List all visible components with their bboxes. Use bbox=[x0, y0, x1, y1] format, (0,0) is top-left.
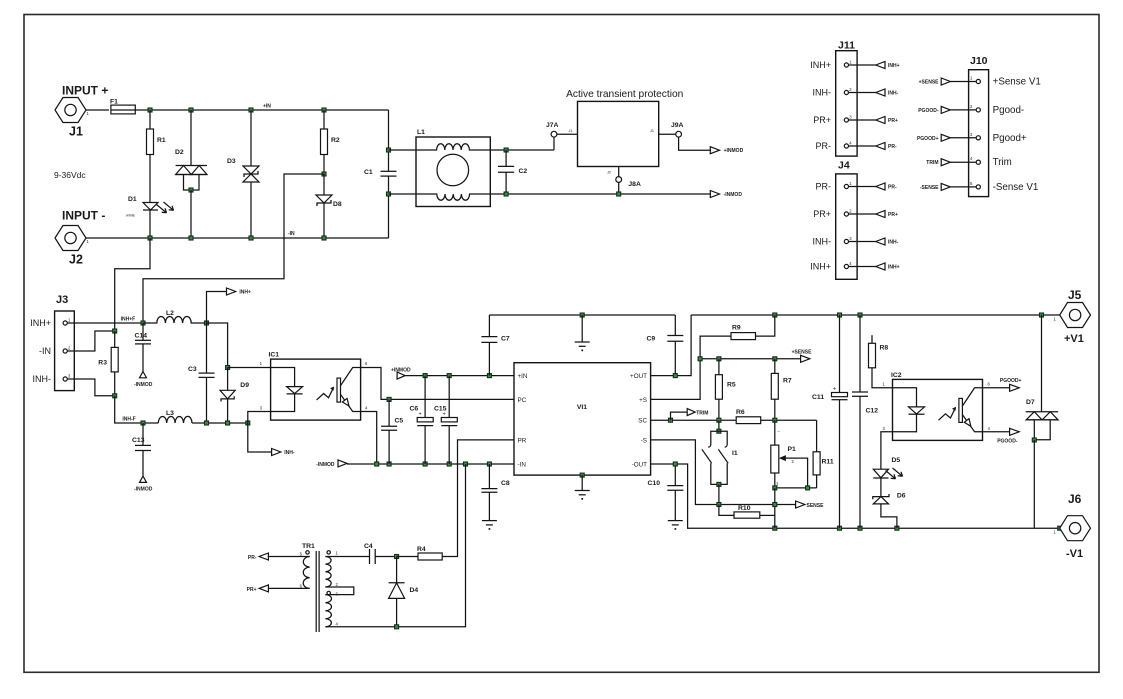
capacitor C2 bbox=[498, 148, 527, 196]
svg-text:Trim: Trim bbox=[993, 157, 1012, 168]
svg-text:R5: R5 bbox=[727, 382, 736, 389]
svg-text:Active transient protection: Active transient protection bbox=[566, 89, 683, 100]
svg-text:L3: L3 bbox=[166, 410, 174, 417]
svg-text:D9: D9 bbox=[240, 382, 249, 389]
svg-text:INH-: INH- bbox=[813, 88, 832, 98]
svg-text:INH-: INH- bbox=[888, 240, 899, 246]
svg-text:R9: R9 bbox=[732, 325, 741, 332]
svg-text:C9: C9 bbox=[647, 336, 656, 343]
svg-text:D2: D2 bbox=[175, 149, 184, 156]
wire IC1 pin4 to -IN rail bbox=[361, 412, 377, 465]
capacitor C14 bbox=[135, 323, 152, 372]
J4 pin 4 INH+ bbox=[810, 261, 899, 272]
capacitor C12 bbox=[852, 315, 878, 528]
svg-text:J10: J10 bbox=[970, 55, 988, 67]
svg-text:INH+: INH+ bbox=[888, 63, 900, 69]
svg-text:F1: F1 bbox=[110, 99, 118, 106]
svg-text:R3: R3 bbox=[98, 360, 107, 367]
svg-text:Pgood-: Pgood- bbox=[993, 105, 1025, 116]
svg-text:PR-: PR- bbox=[888, 185, 897, 191]
flag INH- out bbox=[248, 423, 295, 456]
svg-text:PR: PR bbox=[518, 437, 527, 444]
J11 pin 3 PR+ bbox=[813, 115, 898, 126]
wire INH- node to IC1 pin3 bbox=[248, 412, 271, 424]
svg-text:PR+: PR+ bbox=[813, 209, 831, 219]
ground (top rail) bbox=[575, 315, 590, 351]
svg-text:C14: C14 bbox=[135, 333, 148, 340]
svg-text:9-36Vdc: 9-36Vdc bbox=[54, 170, 86, 180]
svg-text:-INMOD: -INMOD bbox=[134, 487, 153, 493]
svg-text:+S: +S bbox=[639, 397, 647, 404]
connector J10 bbox=[969, 55, 989, 197]
svg-text:PR+: PR+ bbox=[888, 118, 898, 124]
svg-text:INH+: INH+ bbox=[810, 262, 831, 272]
svg-text:J6: J6 bbox=[1068, 492, 1082, 506]
svg-text:+: + bbox=[833, 387, 836, 393]
svg-text:C13: C13 bbox=[132, 437, 145, 444]
TVS D2 bbox=[175, 110, 207, 238]
svg-text:R8: R8 bbox=[880, 345, 889, 352]
svg-text:+IN: +IN bbox=[263, 104, 271, 110]
J11 pin 2 INH- bbox=[813, 87, 899, 98]
svg-text:TR1: TR1 bbox=[302, 543, 315, 550]
svg-text:PR-: PR- bbox=[816, 141, 832, 151]
wire P1 bottom node bbox=[773, 486, 817, 528]
svg-text:PC: PC bbox=[518, 397, 527, 404]
svg-text:L2: L2 bbox=[166, 310, 174, 317]
ground (C8) bbox=[482, 521, 497, 530]
flag TRIM out bbox=[671, 409, 709, 421]
fuse F1 bbox=[110, 99, 135, 114]
svg-text:-IN: -IN bbox=[518, 461, 527, 468]
flag PGOOD- out bbox=[983, 428, 1020, 444]
svg-text:J3: J3 bbox=[56, 294, 68, 306]
J10 pin 2 Pgood- bbox=[918, 104, 1024, 116]
zener D8 bbox=[316, 174, 342, 238]
J10 pin 4 Trim bbox=[926, 156, 1012, 168]
wire D8 node to INH+F node bbox=[143, 174, 324, 323]
J4 pin 3 INH- bbox=[813, 236, 899, 247]
svg-text:D4: D4 bbox=[410, 587, 419, 594]
svg-text:+: + bbox=[419, 412, 422, 418]
flag +INMOD out bbox=[710, 147, 743, 155]
svg-text:+IN: +IN bbox=[518, 373, 528, 380]
TVS D3 bbox=[227, 110, 259, 238]
svg-text:PGOOD+: PGOOD+ bbox=[917, 136, 939, 142]
svg-text:INH+F: INH+F bbox=[121, 317, 136, 323]
svg-text:PGOOD-: PGOOD- bbox=[918, 108, 939, 114]
resistor R4 bbox=[395, 546, 443, 560]
svg-text:INH-: INH- bbox=[284, 450, 295, 456]
transformer TR1 bbox=[300, 543, 370, 632]
svg-text:-SENSE: -SENSE bbox=[920, 185, 939, 191]
wire +OUT to rail B bbox=[651, 315, 692, 378]
svg-text:J2: J2 bbox=[69, 253, 83, 267]
svg-text:TRIM: TRIM bbox=[696, 410, 708, 416]
svg-text:PR-: PR- bbox=[888, 144, 897, 150]
optocoupler IC2 bbox=[883, 372, 991, 440]
svg-text:+INMOD: +INMOD bbox=[724, 148, 744, 154]
svg-text:-OUT: -OUT bbox=[632, 461, 648, 468]
svg-text:J1: J1 bbox=[69, 125, 83, 139]
diode D4 bbox=[389, 557, 419, 629]
connector J1 INPUT+ bbox=[55, 84, 108, 139]
resistor R7 bbox=[771, 359, 792, 420]
capacitor C7 bbox=[481, 315, 510, 376]
svg-text:D7: D7 bbox=[1026, 399, 1035, 406]
connector J5 +V1 bbox=[1054, 288, 1091, 345]
svg-text:C2: C2 bbox=[519, 168, 528, 175]
capacitor C9 bbox=[647, 315, 684, 376]
svg-text:PGOOD+: PGOOD+ bbox=[1000, 378, 1022, 384]
flag INH+ out bbox=[207, 288, 252, 323]
svg-text:PR-: PR- bbox=[816, 182, 832, 192]
J10 pin 3 Pgood+ bbox=[917, 132, 1027, 144]
J4 pin 2 PR+ bbox=[813, 209, 898, 220]
wire +SENSE line bbox=[698, 357, 801, 361]
flag +SENSE out bbox=[792, 350, 813, 363]
svg-text:C3: C3 bbox=[188, 366, 197, 373]
svg-text:L1: L1 bbox=[417, 129, 425, 136]
svg-text:C11: C11 bbox=[812, 394, 824, 401]
LED D1 bbox=[126, 196, 174, 238]
flag -INMOD (C13) bbox=[134, 476, 153, 492]
svg-text:D1: D1 bbox=[128, 196, 137, 203]
svg-text:PR+: PR+ bbox=[888, 212, 898, 218]
J10 pin 1 +Sense V1 bbox=[919, 76, 1041, 88]
svg-text:P1: P1 bbox=[788, 446, 797, 453]
TVS D7 bbox=[1026, 315, 1059, 528]
svg-text:-IN: -IN bbox=[39, 346, 51, 356]
flag PGOOD+ out bbox=[983, 378, 1022, 391]
svg-text:INH+: INH+ bbox=[810, 60, 831, 70]
capacitor C3 bbox=[188, 323, 215, 423]
inductor L3 bbox=[158, 410, 192, 423]
svg-text:J2: J2 bbox=[607, 171, 611, 175]
wire +IN rail bbox=[135, 104, 389, 113]
wire J2 rail to R3 node bbox=[115, 238, 150, 331]
resistor R9 bbox=[700, 315, 775, 359]
capacitor C8 bbox=[481, 464, 510, 521]
svg-text:INH+: INH+ bbox=[239, 290, 251, 296]
svg-text:PR+: PR+ bbox=[247, 587, 257, 593]
svg-text:INH-: INH- bbox=[33, 374, 52, 384]
svg-text:+INMOD: +INMOD bbox=[391, 368, 411, 374]
svg-text:PGOOD-: PGOOD- bbox=[997, 439, 1018, 445]
svg-text:-IN: -IN bbox=[288, 231, 295, 237]
svg-text:R1: R1 bbox=[157, 137, 166, 144]
flag -INMOD (C14) bbox=[134, 372, 153, 389]
resistor R8 bbox=[869, 335, 893, 388]
connector J11 bbox=[836, 40, 857, 157]
switch I1 bbox=[702, 420, 738, 504]
capacitor C15 polarized bbox=[434, 376, 457, 464]
zener D6 bbox=[873, 478, 906, 528]
svg-text:J1: J1 bbox=[650, 129, 654, 133]
resistor R10 bbox=[719, 505, 775, 519]
svg-text:INH+: INH+ bbox=[888, 265, 900, 271]
svg-text:R11: R11 bbox=[822, 459, 834, 466]
svg-text:C12: C12 bbox=[866, 408, 879, 415]
svg-text:INH-: INH- bbox=[813, 237, 832, 247]
ground (C10) bbox=[668, 521, 683, 530]
connector J3 bbox=[55, 294, 75, 391]
svg-text:D6: D6 bbox=[897, 493, 906, 500]
svg-text:INH-F: INH-F bbox=[122, 417, 135, 423]
wire J1 to F1 bbox=[86, 109, 109, 111]
wire -IN rail (bottom of VI1 input side) bbox=[375, 462, 514, 466]
connector J6 -V1 bbox=[1054, 492, 1091, 560]
svg-text:IC1: IC1 bbox=[269, 352, 280, 359]
svg-text:-V1: -V1 bbox=[1066, 548, 1083, 560]
resistor R5 bbox=[715, 359, 736, 420]
svg-text:R10: R10 bbox=[738, 505, 751, 512]
J10 pin 5 -Sense V1 bbox=[920, 181, 1038, 193]
svg-text:J8A: J8A bbox=[628, 181, 641, 188]
active transient protection block bbox=[566, 89, 683, 167]
wire -IN rail bbox=[86, 231, 389, 240]
svg-text:+OUT: +OUT bbox=[630, 373, 647, 380]
wire R3 bottom to INH-F node bbox=[115, 396, 143, 423]
svg-text:J4: J4 bbox=[838, 160, 850, 172]
svg-text:R4: R4 bbox=[417, 546, 426, 553]
wire SC/TRIM line bbox=[651, 418, 817, 422]
svg-text:+SENSE: +SENSE bbox=[919, 80, 940, 86]
flag +INMOD in bbox=[391, 368, 514, 380]
svg-text:J7A: J7A bbox=[546, 122, 559, 129]
capacitor C13 bbox=[132, 423, 151, 476]
svg-text:PR-: PR- bbox=[248, 555, 257, 561]
potentiometer P1 bbox=[771, 420, 808, 488]
resistor R11 bbox=[813, 420, 834, 488]
converter VI1 bbox=[514, 363, 651, 475]
connector J7A bbox=[546, 122, 578, 150]
resistor R2 bbox=[321, 110, 340, 176]
svg-text:C15: C15 bbox=[434, 406, 447, 413]
choke L1 bbox=[389, 129, 711, 207]
svg-text:Pgood+: Pgood+ bbox=[993, 133, 1027, 144]
svg-text:J9A: J9A bbox=[671, 122, 684, 129]
resistor R3 bbox=[98, 329, 118, 398]
svg-text:C4: C4 bbox=[364, 543, 373, 550]
wire +S to +SENSE node bbox=[651, 359, 701, 400]
connector J8A bbox=[607, 167, 641, 197]
svg-text:C5: C5 bbox=[395, 418, 404, 425]
svg-text:SC: SC bbox=[638, 418, 647, 425]
svg-text:J1: J1 bbox=[569, 129, 573, 133]
svg-text:C8: C8 bbox=[501, 480, 510, 487]
J11 pin 4 PR- bbox=[816, 141, 897, 152]
svg-text:+V1: +V1 bbox=[1064, 333, 1084, 345]
wire top rail C7-C9 bbox=[489, 313, 675, 317]
svg-text:I1: I1 bbox=[732, 450, 738, 457]
J3 pin 3 INH- bbox=[33, 374, 115, 396]
wire IC2 pin3 to D5 bbox=[881, 432, 893, 469]
inductor L2 bbox=[143, 310, 209, 325]
svg-text:INH+: INH+ bbox=[30, 318, 51, 328]
svg-text:-S: -S bbox=[641, 437, 647, 444]
svg-text:INPUT -: INPUT - bbox=[62, 209, 105, 223]
wire +V1 rail B bbox=[691, 313, 1060, 317]
J11 pin 1 INH+ bbox=[810, 60, 899, 71]
svg-text:C6: C6 bbox=[410, 406, 419, 413]
svg-text:IC2: IC2 bbox=[891, 372, 902, 379]
wire IC1 pin6 to VI1 PC bbox=[361, 368, 514, 402]
zener D9 bbox=[220, 366, 249, 424]
svg-text:R7: R7 bbox=[783, 378, 792, 385]
capacitor C1 bbox=[364, 110, 397, 238]
connector J9A bbox=[650, 122, 710, 150]
flag -SENSE out bbox=[796, 501, 825, 509]
capacitor C10 bbox=[648, 464, 684, 521]
svg-text:INPUT +: INPUT + bbox=[62, 84, 108, 98]
wire IC1 pin1 bbox=[228, 367, 271, 369]
wire L2 node to IC1 pin1 node bbox=[207, 323, 228, 368]
wire -OUT to bottom rail bbox=[651, 462, 1062, 530]
svg-text:VI1: VI1 bbox=[577, 404, 587, 411]
svg-text:J11: J11 bbox=[838, 40, 855, 52]
svg-text:C1: C1 bbox=[364, 169, 373, 176]
wire -S to -SENSE line bbox=[651, 440, 796, 507]
connector J4 bbox=[836, 160, 857, 280]
node INH-F and bottom filter line bbox=[122, 417, 249, 426]
svg-text:C10: C10 bbox=[648, 480, 661, 487]
capacitor C4 bbox=[364, 543, 397, 564]
svg-text:TRIM: TRIM bbox=[926, 160, 938, 166]
svg-text:-Sense V1: -Sense V1 bbox=[993, 182, 1039, 193]
svg-text:D8: D8 bbox=[333, 201, 342, 208]
svg-text:+SENSE: +SENSE bbox=[792, 350, 813, 356]
resistor R6 bbox=[736, 409, 761, 424]
flag -INMOD in bbox=[316, 460, 377, 468]
ground (VI1 bottom pin) bbox=[575, 473, 590, 500]
J4 pin 1 PR- bbox=[816, 181, 897, 192]
capacitor C11 polarized bbox=[812, 315, 848, 528]
J3 pin 2 -IN bbox=[39, 331, 115, 356]
svg-text:C7: C7 bbox=[501, 336, 510, 343]
svg-text:INH-: INH- bbox=[888, 91, 899, 97]
capacitor C6 polarized bbox=[410, 376, 434, 464]
svg-text:D5: D5 bbox=[892, 457, 901, 464]
optocoupler IC1 bbox=[260, 352, 368, 421]
svg-text:white: white bbox=[126, 214, 135, 218]
node INH+F bbox=[121, 317, 145, 326]
svg-text:-INMOD: -INMOD bbox=[316, 462, 335, 468]
svg-text:+Sense V1: +Sense V1 bbox=[993, 77, 1041, 88]
flag -INMOD out bbox=[710, 191, 742, 199]
svg-text:SENSE: SENSE bbox=[807, 503, 825, 509]
svg-text:R2: R2 bbox=[331, 137, 340, 144]
J3 pin 1 INH+ bbox=[30, 318, 143, 329]
svg-text:-INMOD: -INMOD bbox=[134, 382, 153, 388]
flag PR- out bbox=[248, 553, 310, 561]
svg-text:R6: R6 bbox=[736, 409, 745, 416]
svg-text:PR+: PR+ bbox=[813, 115, 831, 125]
wire VI1 PR to R4 bbox=[442, 440, 514, 557]
svg-text:J5: J5 bbox=[1068, 288, 1082, 302]
flag PR+ out bbox=[247, 585, 310, 593]
svg-text:-INMOD: -INMOD bbox=[724, 192, 743, 198]
resistor R1 bbox=[147, 110, 166, 203]
wire -IN rail down to TR1 pin4 line bbox=[325, 464, 465, 627]
connector J2 INPUT- bbox=[55, 209, 105, 267]
svg-text:D3: D3 bbox=[227, 158, 236, 165]
capacitor C5 bbox=[381, 399, 403, 464]
LED D5 bbox=[873, 457, 902, 479]
